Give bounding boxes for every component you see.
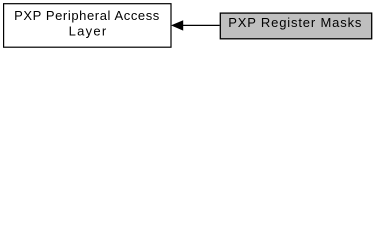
svg-text:Layer: Layer <box>69 24 107 39</box>
svg-text:PXP Peripheral Access: PXP Peripheral Access <box>14 8 160 23</box>
node Node1: PXP Register Masks (current, filled grey75) <box>220 13 371 39</box>
edge Node1 to Node2 (arrowhead) <box>172 21 183 30</box>
node Node2: PXP Peripheral Access Layer <box>4 4 171 48</box>
svg-text:PXP Register Masks: PXP Register Masks <box>228 15 362 30</box>
wire: edge line <box>183 24 220 26</box>
